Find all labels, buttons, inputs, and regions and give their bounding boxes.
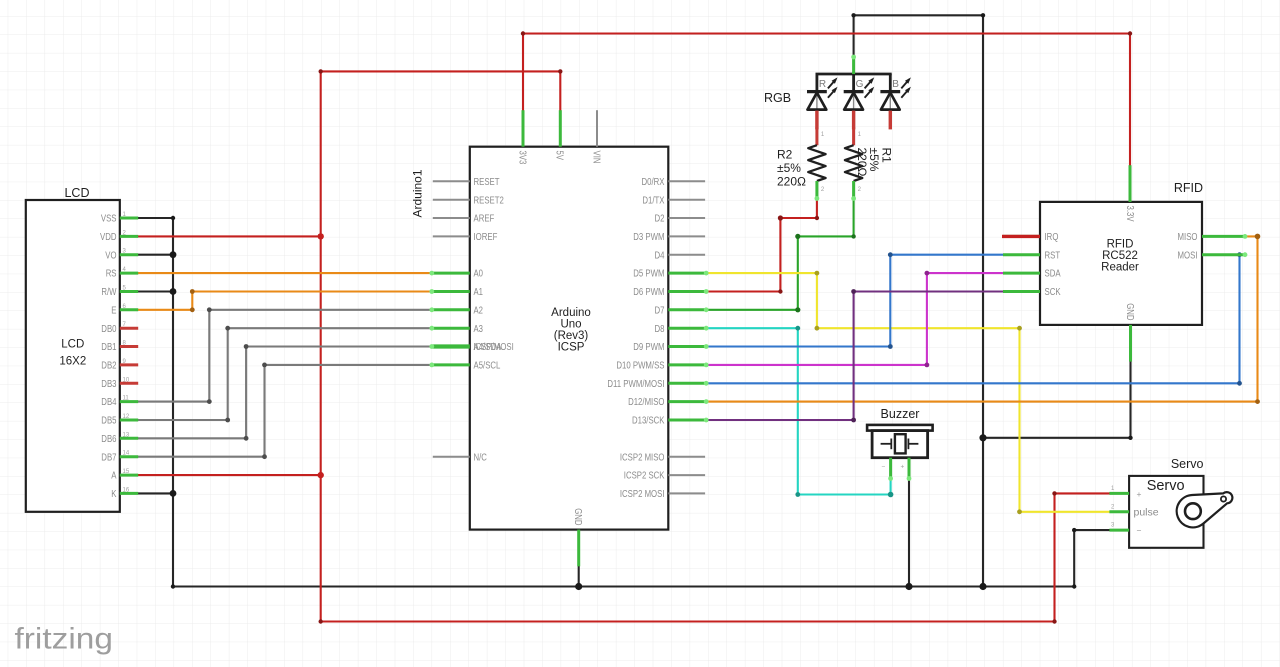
LED G diode symbol [844, 92, 864, 130]
wire R2 to D6: vertical [779, 218, 781, 292]
svg-text:DB2: DB2 [101, 361, 117, 372]
svg-text:R2: R2 [777, 148, 793, 162]
wire 3V3: top horizontal to RFID [523, 32, 1130, 34]
LED B diode symbol [880, 92, 900, 130]
wire GND: LCD VSS to bus [132, 217, 173, 219]
svg-text:VDD: VDD [100, 232, 117, 243]
bendpoints D9-RST [888, 344, 893, 349]
Arduino left pin A3 [433, 324, 484, 335]
wire LCD DB5 to A3 [132, 328, 435, 420]
wire R2 to D6: drop from resistor [816, 198, 818, 218]
junction GND bus at VO [170, 251, 177, 258]
wire D10 to RFID SDA [703, 273, 1005, 365]
svg-text:B: B [892, 79, 899, 90]
bendpoints DB4-A2 [207, 399, 212, 404]
svg-text:220Ω: 220Ω [777, 175, 806, 189]
Arduino left pin A1 [433, 287, 484, 298]
svg-text:RC522: RC522 [1102, 250, 1138, 262]
wire LCD RS to A0 [132, 272, 435, 274]
svg-text:A4/SDA: A4/SDA [474, 342, 502, 353]
Arduino right pin D13/SCK [632, 416, 705, 427]
svg-text:D3 PWM: D3 PWM [633, 232, 664, 243]
label Arduino1 instance name [411, 169, 425, 217]
svg-text:DB0: DB0 [101, 324, 117, 335]
svg-text:+: + [1137, 489, 1142, 499]
svg-text:VIN: VIN [590, 151, 601, 164]
Arduino right pin D11 PWM/MOSI [607, 379, 705, 390]
junction GND bus at R/W [170, 288, 177, 295]
wire 5V: servo plus horizontal [1055, 492, 1112, 494]
svg-text:R/W: R/W [101, 287, 117, 298]
Arduino right pin D6 PWM [633, 287, 705, 298]
wire R1 to D7: vertical [797, 236, 799, 309]
Arduino left pin IOREF [433, 232, 498, 243]
svg-text:MISO: MISO [1178, 232, 1198, 243]
bendpoints R2-D6 [815, 216, 819, 220]
svg-text:D2: D2 [655, 214, 665, 225]
LED R diode symbol [807, 92, 827, 130]
wire LED G anode to R1 [853, 125, 855, 145]
svg-text:MOSI: MOSI [1178, 250, 1198, 261]
svg-text:pulse: pulse [1134, 507, 1159, 519]
svg-text:D0/RX: D0/RX [642, 177, 665, 188]
RFID top pin 3.3V [1124, 165, 1135, 222]
svg-text:12: 12 [123, 414, 130, 420]
wire D12 to RFID MISO [703, 236, 1257, 401]
Arduino left pin A2 [433, 305, 484, 316]
bendpoints DB5-A3 [225, 418, 230, 423]
wire 5V: bottom red bus [321, 620, 1055, 622]
wire R2 to D6: into pin [703, 290, 780, 292]
svg-text:D1/TX: D1/TX [642, 195, 664, 206]
svg-text:D11 PWM/MOSI: D11 PWM/MOSI [607, 379, 664, 390]
svg-text:ICSP2 MOSI: ICSP2 MOSI [620, 489, 665, 500]
svg-text:D10 PWM/SS: D10 PWM/SS [616, 361, 664, 372]
svg-text:−: − [882, 464, 886, 471]
servo M1 body [1129, 476, 1203, 548]
bendpoints DB7-A5 [262, 454, 267, 459]
svg-text:RS: RS [106, 269, 117, 280]
svg-text:VO: VO [105, 250, 116, 261]
servo pin 2 pulse [1109, 504, 1158, 518]
Arduino right pin D12/MISO [628, 397, 705, 408]
svg-text:3.3V: 3.3V [1124, 206, 1135, 222]
bendpoints D5-servo [815, 271, 820, 276]
label LCD 16X2 inner [59, 339, 86, 368]
Arduino top pin 5V [554, 110, 565, 160]
LCD pin 11 DB4 [101, 396, 138, 409]
junction GND right riser bottom [979, 583, 986, 590]
LCD pin 14 DB7 [101, 451, 138, 464]
wire GND: buzzer pin2 drop [908, 478, 910, 587]
svg-text:IOREF: IOREF [474, 232, 498, 243]
svg-text:E: E [111, 305, 116, 316]
svg-text:16: 16 [123, 487, 130, 493]
svg-text:LCD: LCD [64, 186, 89, 200]
Arduino right pin D0/RX [642, 177, 706, 188]
svg-text:GND: GND [1124, 303, 1135, 320]
svg-text:A5/SCL: A5/SCL [474, 361, 501, 372]
Arduino right pin ICSP2 MOSI [620, 489, 705, 500]
wire GND: LCD VO to bus [132, 254, 173, 256]
svg-text:3V3: 3V3 [516, 151, 527, 165]
Arduino right pin ICSP2 SCK [624, 471, 705, 482]
svg-text:SCK: SCK [1045, 287, 1061, 298]
LED B emission arrows [901, 77, 911, 97]
label Arduino center text [551, 307, 591, 354]
LCD pin 16 K [111, 487, 138, 500]
svg-text:RESET: RESET [474, 177, 500, 188]
LCD pin 10 DB3 [101, 377, 138, 390]
wire GND: servo minus riser [1073, 530, 1075, 586]
svg-text:220Ω: 220Ω [855, 148, 869, 177]
svg-text:fritzing: fritzing [15, 623, 113, 656]
LCD pin 1 VSS [101, 212, 138, 225]
bendpoints R1-D7 [851, 234, 855, 238]
wire 5V: Arduino 5V drop [559, 71, 561, 112]
RFID right pin MISO [1178, 232, 1245, 243]
svg-text:13: 13 [123, 432, 130, 438]
Arduino bottom pin GND [572, 508, 583, 566]
svg-text:(Rev3): (Rev3) [554, 330, 589, 342]
wire 5V: left vertical [320, 71, 322, 621]
LCD pin 9 DB2 [101, 359, 138, 372]
wire 5V: LCD A horizontal [132, 474, 321, 476]
svg-text:D5 PWM: D5 PWM [633, 269, 664, 280]
wire GND: LCD bus vertical [172, 218, 174, 587]
svg-text:D12/MISO: D12/MISO [628, 397, 665, 408]
LCD pin 2 VDD [100, 230, 138, 243]
svg-text:Arduino1: Arduino1 [411, 169, 425, 217]
Arduino left pin N/C [433, 452, 487, 463]
svg-text:RST: RST [1045, 250, 1061, 261]
wire 5V: LCD VDD horizontal [132, 235, 321, 237]
svg-text:D13/SCK: D13/SCK [632, 416, 665, 427]
svg-text:±5%: ±5% [777, 161, 801, 175]
LCD LCD1 16X2 module [26, 200, 120, 512]
svg-text:RFID: RFID [1107, 239, 1134, 251]
junction 5V corners [319, 69, 323, 73]
Arduino right pin D5 PWM [633, 269, 705, 280]
svg-text:Reader: Reader [1101, 262, 1139, 274]
junction 3V3 corners [521, 31, 525, 35]
wire LCD DB4 to A2 [132, 310, 435, 402]
Arduino top pin 3V3 [516, 110, 527, 165]
junction GND Arduino drop [575, 583, 582, 590]
wire D5 to servo pulse [703, 273, 1111, 512]
LCD pin 12 DB5 [101, 414, 138, 427]
RGB LED common pin stub [852, 56, 855, 74]
svg-text:A1: A1 [474, 287, 484, 298]
svg-text:DB5: DB5 [101, 416, 117, 427]
svg-text:AREF: AREF [474, 214, 495, 225]
wire LCD E to A1 [132, 292, 435, 310]
wire GND: RGB LED common drop [853, 15, 855, 56]
RGB LED LED1 common bar [816, 74, 892, 92]
wire GND: servo minus horizontal [1074, 529, 1111, 531]
LCD pin 5 R/W [101, 286, 138, 299]
svg-text:A: A [111, 471, 116, 482]
label R2 value [777, 148, 806, 189]
wire LCD DB6 to A4 [132, 347, 435, 439]
bendpoints DB6-A4 [244, 436, 249, 441]
wire R2 to D6: horizontal jog [780, 217, 817, 219]
svg-text:GND: GND [572, 508, 583, 525]
svg-text:Servo: Servo [1147, 478, 1185, 494]
Arduino right pin D4 [655, 250, 706, 261]
svg-text:DB1: DB1 [101, 342, 117, 353]
svg-text:K: K [111, 489, 116, 500]
LCD pin 7 DB0 [101, 322, 138, 335]
svg-text:LCD: LCD [61, 339, 84, 351]
svg-text:D6 PWM: D6 PWM [633, 287, 664, 298]
svg-text:Arduino: Arduino [551, 307, 591, 319]
svg-text:DB7: DB7 [101, 452, 117, 463]
servo pin 1 + [1109, 486, 1141, 499]
wire D11 to RFID MOSI [703, 255, 1242, 384]
wire GND: Arduino GND drop [578, 564, 580, 587]
resistor R1 220 ohm [845, 127, 862, 200]
wire GND: RFID GND drop [1129, 360, 1131, 438]
svg-text:10: 10 [123, 377, 130, 383]
svg-text:D9 PWM: D9 PWM [633, 342, 664, 353]
wire GND: RFID GND to riser [983, 437, 1131, 439]
junction GND RFID corner [1128, 436, 1132, 440]
svg-text:D7: D7 [655, 305, 665, 316]
servo pin 3 − [1109, 523, 1141, 536]
Arduino right pin D7 [655, 305, 706, 316]
Arduino U1 Uno Rev3 [470, 147, 669, 530]
svg-text:VSS: VSS [101, 214, 117, 225]
resistor R2 220 ohm [808, 127, 825, 200]
svg-text:R: R [819, 79, 826, 90]
junction GND buzzer drop [905, 583, 912, 590]
svg-text:IRQ: IRQ [1045, 232, 1059, 243]
svg-text:11: 11 [123, 396, 130, 402]
LCD pin 3 VO [105, 249, 138, 262]
wire D8 to buzzer pin1 [703, 328, 891, 494]
bendpoints D13-SCK [851, 418, 856, 423]
LCD pin 8 DB1 [101, 341, 138, 354]
bendpoint D12-MISO [1255, 399, 1260, 404]
svg-text:RFID: RFID [1174, 181, 1203, 195]
svg-text:RGB: RGB [764, 91, 791, 105]
RFID bottom pin GND [1124, 303, 1135, 361]
svg-text:DB6: DB6 [101, 434, 117, 445]
svg-text:A3: A3 [474, 324, 484, 335]
Arduino right pin ICSP2 MISO [620, 452, 705, 463]
wire GND: right vertical riser [982, 15, 984, 586]
svg-text:A0: A0 [474, 269, 484, 280]
junction GND servo corner [1072, 584, 1076, 588]
Arduino right pin D1/TX [642, 195, 705, 206]
svg-text:DB4: DB4 [101, 397, 117, 408]
svg-text:5V: 5V [554, 151, 565, 161]
buzzer pin 1 [882, 458, 891, 480]
svg-text:Servo: Servo [1171, 457, 1204, 471]
Arduino left pin RESET [433, 177, 500, 188]
pin endpoint markers [429, 55, 1247, 481]
wire D9 to RFID RST [703, 255, 1005, 347]
LED G emission arrows [865, 77, 875, 97]
svg-text:DB3: DB3 [101, 379, 117, 390]
svg-text:N/C: N/C [474, 452, 487, 463]
Arduino right pin D8 [655, 324, 706, 335]
bendpoints E-A1 [190, 307, 195, 312]
svg-text:−: − [1137, 526, 1142, 536]
svg-text:16X2: 16X2 [59, 356, 86, 368]
junction 5V at LCD VDD [318, 233, 324, 239]
Arduino top pin VIN [590, 110, 601, 163]
servo horn [1177, 492, 1233, 527]
label RFID center text [1101, 239, 1139, 274]
Arduino right pin D10 PWM/SS [616, 361, 705, 372]
svg-text:+: + [901, 464, 905, 471]
junction GND bus corner top [171, 216, 175, 220]
junction GND bus at K [170, 490, 177, 497]
wire GND: top horizontal to RGB LED [854, 14, 983, 16]
svg-text:SDA: SDA [1045, 269, 1061, 280]
wire 3V3: Arduino 3V3 riser [522, 34, 524, 113]
junction GND bus corner bottom [171, 584, 175, 588]
RFID left pin SCK [1003, 287, 1061, 298]
buzzer BZ1 body [867, 425, 933, 458]
LCD pin 6 E [111, 304, 138, 317]
RFID left pin IRQ [1003, 232, 1059, 243]
svg-text:15: 15 [123, 469, 130, 475]
Arduino left pin AREF [433, 214, 495, 225]
Arduino left pin RESET2 [433, 195, 504, 206]
wire R1 to D7: into pin [703, 309, 798, 311]
Arduino left pin A0 [433, 269, 484, 280]
RFID right pin MOSI [1178, 250, 1245, 261]
wire GND: LCD R/W to bus [132, 290, 173, 292]
svg-text:ICSP: ICSP [558, 342, 585, 354]
Arduino left pin A4/SDA + ICSP MOSI [433, 342, 514, 353]
wire LED R anode to R2 [816, 125, 818, 145]
svg-text:Buzzer: Buzzer [881, 407, 920, 421]
RFID left pin SDA [1003, 269, 1061, 280]
junction GND at RFID branch [979, 434, 986, 441]
wire 5V: top horizontal to Arduino 5V [321, 70, 561, 72]
wire GND: bottom bus horizontal [172, 585, 1074, 587]
wire 3V3: RFID 3.3V drop [1129, 34, 1131, 168]
svg-text:G: G [856, 79, 864, 90]
svg-text:A2: A2 [474, 305, 484, 316]
LED R emission arrows [828, 77, 838, 97]
wire R1 to D7: horizontal jog [798, 235, 854, 237]
bendpoints D8-buzzer [795, 326, 800, 331]
bendpoints D10-SDA [925, 363, 930, 368]
LCD pin 4 RS [106, 267, 139, 280]
wire LCD DB7 to A5 [132, 365, 435, 457]
LCD pin 13 DB6 [101, 432, 138, 445]
svg-text:ICSP2 SCK: ICSP2 SCK [624, 471, 665, 482]
wire RFID IRQ stub wire [1002, 235, 1040, 238]
svg-text:RESET2: RESET2 [474, 195, 505, 206]
junction GND top corners [981, 13, 985, 17]
wire 5V: servo plus riser [1053, 493, 1055, 621]
wire R1 to D7: drop from resistor [853, 198, 855, 237]
svg-text:ICSP2 MISO: ICSP2 MISO [620, 452, 665, 463]
junction 5V at LCD A [318, 472, 324, 478]
buzzer pin 2 [901, 458, 910, 480]
Arduino right pin D9 PWM [633, 342, 705, 353]
svg-text:Uno: Uno [560, 319, 581, 331]
Arduino left pin A5/SCL [433, 361, 501, 372]
bendpoint D11-MOSI [1237, 381, 1242, 386]
Arduino right pin D2 [655, 214, 706, 225]
label R1 value rotated [855, 148, 894, 177]
RFID left pin RST [1003, 250, 1060, 261]
svg-text:D4: D4 [655, 250, 665, 261]
svg-text:14: 14 [123, 451, 130, 457]
svg-text:D8: D8 [655, 324, 665, 335]
wire D13 to RFID SCK [703, 292, 1005, 421]
wire GND: LCD K to bus [132, 492, 173, 494]
Arduino right pin D3 PWM [633, 232, 705, 243]
RFID RC522 reader module [1040, 202, 1202, 325]
LCD pin 15 A [111, 469, 138, 482]
